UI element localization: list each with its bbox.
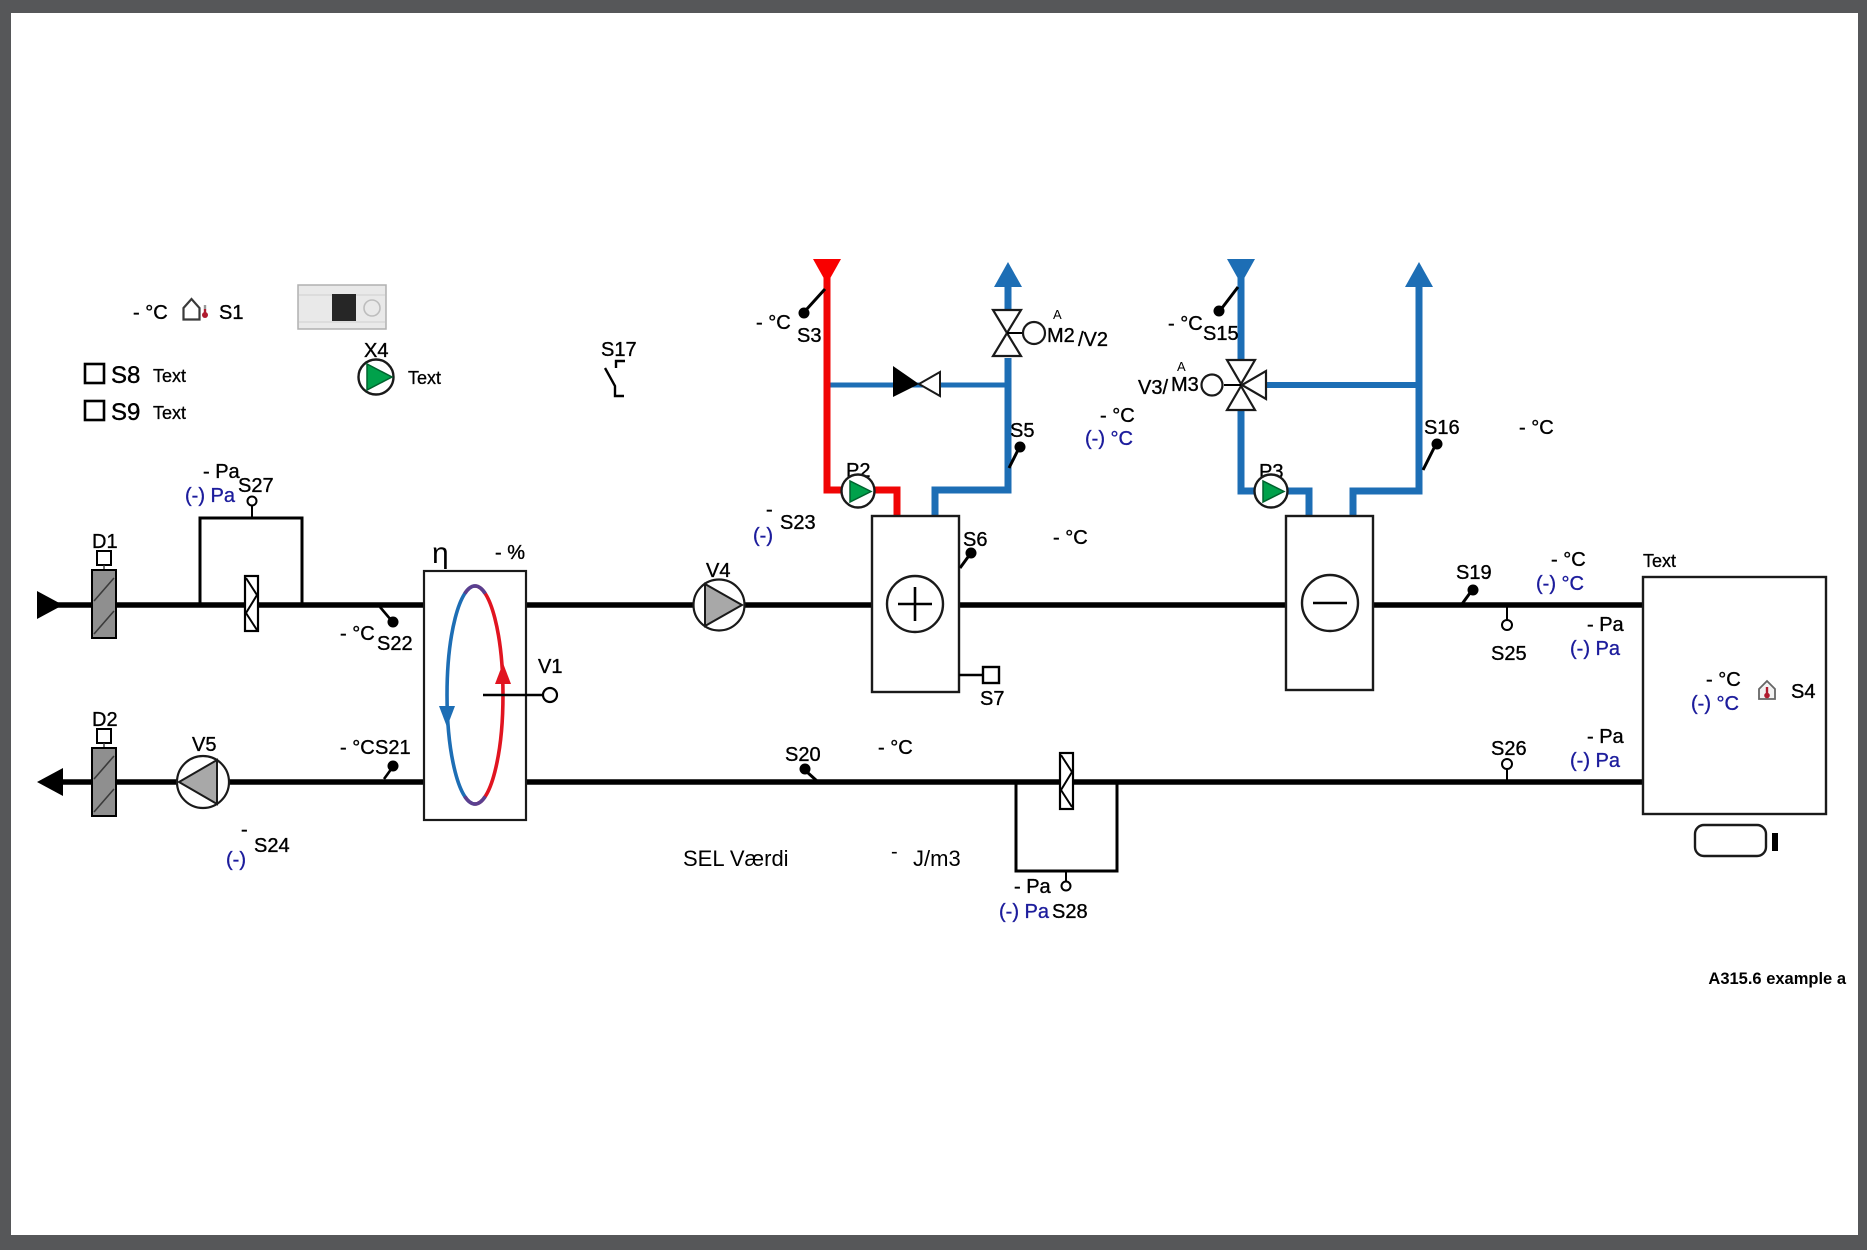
- blue pipe above valve M2: [1005, 283, 1012, 310]
- svg-text:S27: S27: [238, 475, 274, 497]
- svg-text:- Pa: - Pa: [1587, 614, 1625, 636]
- cooling return triangle: [1405, 262, 1433, 287]
- svg-text:S26: S26: [1491, 738, 1527, 760]
- extract air duct line: [60, 779, 1646, 785]
- supply air duct line: [55, 602, 1646, 608]
- sensor S21: [340, 737, 411, 779]
- V1 actuator: [483, 656, 562, 702]
- svg-text:- °C: - °C: [1706, 669, 1741, 691]
- room sensor icon S4: [1759, 681, 1815, 703]
- cooling supply pipe (blue, left): [1238, 278, 1245, 362]
- svg-text:-: -: [766, 499, 773, 521]
- svg-text:- °C: - °C: [1053, 527, 1088, 549]
- svg-text:- °C: - °C: [340, 623, 375, 645]
- svg-text:(-) °C: (-) °C: [1085, 428, 1133, 450]
- svg-text:(-) °C: (-) °C: [1691, 693, 1739, 715]
- pump P2: [842, 460, 875, 508]
- svg-text:(-) Pa: (-) Pa: [1570, 750, 1621, 772]
- svg-text:Text: Text: [1643, 551, 1676, 571]
- svg-text:(-): (-): [753, 525, 773, 547]
- svg-text:S7: S7: [980, 688, 1004, 710]
- svg-text:A: A: [1177, 359, 1186, 374]
- svg-text:(-) °C: (-) °C: [1536, 573, 1584, 595]
- svg-text:- °C: - °C: [1100, 405, 1135, 427]
- red pipe P2 to coil: [872, 490, 897, 517]
- damper D2: [92, 709, 118, 816]
- pump P3: [1255, 461, 1288, 508]
- setpoint button: [1695, 825, 1778, 856]
- sensor S15: [1168, 287, 1239, 345]
- room box: [1643, 551, 1826, 814]
- svg-text:- °C: - °C: [756, 312, 791, 334]
- svg-text:A315.6 example a: A315.6 example a: [1708, 970, 1846, 988]
- svg-text:Text: Text: [153, 366, 186, 386]
- outdoor sensor S1: [133, 299, 243, 324]
- svg-text:(-): (-): [226, 849, 246, 871]
- svg-text:J/m3: J/m3: [913, 846, 961, 871]
- svg-text:S22: S22: [377, 633, 413, 655]
- sensor S19: [1456, 562, 1492, 604]
- svg-text:S5: S5: [1010, 420, 1034, 442]
- sensor S6: [960, 529, 987, 568]
- svg-text:M2: M2: [1047, 325, 1075, 347]
- svg-text:/V2: /V2: [1078, 329, 1108, 351]
- svg-text:S16: S16: [1424, 417, 1460, 439]
- svg-text:(-) Pa: (-) Pa: [999, 901, 1050, 923]
- svg-text:S8: S8: [111, 362, 140, 389]
- svg-text:- %: - %: [495, 542, 525, 564]
- sensor S3: [756, 289, 825, 347]
- heat exchanger V1: [424, 537, 526, 820]
- heating coil box: [872, 516, 959, 692]
- sensor S20: [785, 744, 821, 781]
- switch S17: [601, 339, 637, 396]
- filter sensor box S27: [200, 497, 302, 632]
- svg-text:-: -: [241, 819, 248, 841]
- svg-text:S4: S4: [1791, 681, 1815, 703]
- heating supply pipe (red): [827, 278, 843, 490]
- svg-text:- °C: - °C: [878, 737, 913, 759]
- svg-text:S20: S20: [785, 744, 821, 766]
- control panel icon: [298, 285, 386, 329]
- svg-text:V1: V1: [538, 656, 562, 678]
- digital input S8: [85, 362, 186, 389]
- sensor S22: [340, 607, 413, 655]
- damper D1: [92, 531, 118, 638]
- svg-text:S23: S23: [780, 512, 816, 534]
- pump X4: [359, 340, 442, 395]
- svg-text:S3: S3: [797, 325, 821, 347]
- sensor S7: [959, 667, 1004, 710]
- svg-text:S24: S24: [254, 835, 290, 857]
- valve V3/M3: [1138, 359, 1266, 410]
- svg-text:- °C: - °C: [1519, 417, 1554, 439]
- svg-text:S19: S19: [1456, 562, 1492, 584]
- svg-text:D1: D1: [92, 531, 118, 553]
- svg-text:Text: Text: [408, 368, 441, 388]
- fan V5: [177, 734, 229, 808]
- svg-text:η: η: [432, 537, 449, 570]
- svg-text:- Pa: - Pa: [1014, 876, 1052, 898]
- extract outlet arrow: [37, 768, 63, 796]
- digital input S9: [85, 399, 186, 426]
- valve M2/V2: [993, 307, 1108, 356]
- svg-text:S9: S9: [111, 399, 140, 426]
- svg-text:- Pa: - Pa: [203, 461, 241, 483]
- sensor S25: [1491, 607, 1527, 665]
- svg-text:Text: Text: [153, 403, 186, 423]
- cooling pipe P3 to coil: [1286, 491, 1309, 517]
- svg-text:(-) Pa: (-) Pa: [185, 485, 236, 507]
- cooling coil box: [1286, 516, 1373, 690]
- svg-text:SEL Værdi: SEL Værdi: [683, 846, 789, 871]
- filter sensor box S28: [1016, 753, 1117, 891]
- svg-text:A: A: [1053, 307, 1062, 322]
- sensor S5: [1009, 420, 1034, 468]
- svg-text:S21: S21: [375, 737, 411, 759]
- svg-text:S6: S6: [963, 529, 987, 551]
- cooling supply triangle: [1227, 259, 1255, 284]
- svg-text:V3/: V3/: [1138, 377, 1168, 399]
- svg-text:S28: S28: [1052, 901, 1088, 923]
- sensor S26: [1491, 738, 1527, 780]
- svg-text:S1: S1: [219, 302, 243, 324]
- svg-text:- °C: - °C: [133, 302, 168, 324]
- cooling pipe valve to P3: [1241, 408, 1256, 491]
- bypass pipe with check valve: [827, 366, 1008, 397]
- heating supply triangle: [813, 259, 841, 284]
- svg-text:-: -: [891, 841, 898, 863]
- heating return pipe (blue riser): [935, 358, 1008, 517]
- valve connection pipe: [1264, 382, 1419, 388]
- sensor S16: [1423, 417, 1460, 470]
- svg-text:S15: S15: [1203, 323, 1239, 345]
- svg-text:S17: S17: [601, 339, 637, 361]
- svg-text:- °C: - °C: [1168, 313, 1203, 335]
- svg-text:V5: V5: [192, 734, 216, 756]
- svg-text:- Pa: - Pa: [1587, 726, 1625, 748]
- cooling return riser (blue, right): [1353, 287, 1419, 517]
- supply inlet arrow: [37, 591, 63, 619]
- fan V4: [694, 560, 745, 631]
- svg-text:- °C: - °C: [340, 737, 375, 759]
- heating return triangle: [994, 262, 1022, 287]
- svg-text:(-) Pa: (-) Pa: [1570, 638, 1621, 660]
- svg-text:- °C: - °C: [1551, 549, 1586, 571]
- svg-text:S25: S25: [1491, 643, 1527, 665]
- svg-text:M3: M3: [1171, 374, 1199, 396]
- svg-text:D2: D2: [92, 709, 118, 731]
